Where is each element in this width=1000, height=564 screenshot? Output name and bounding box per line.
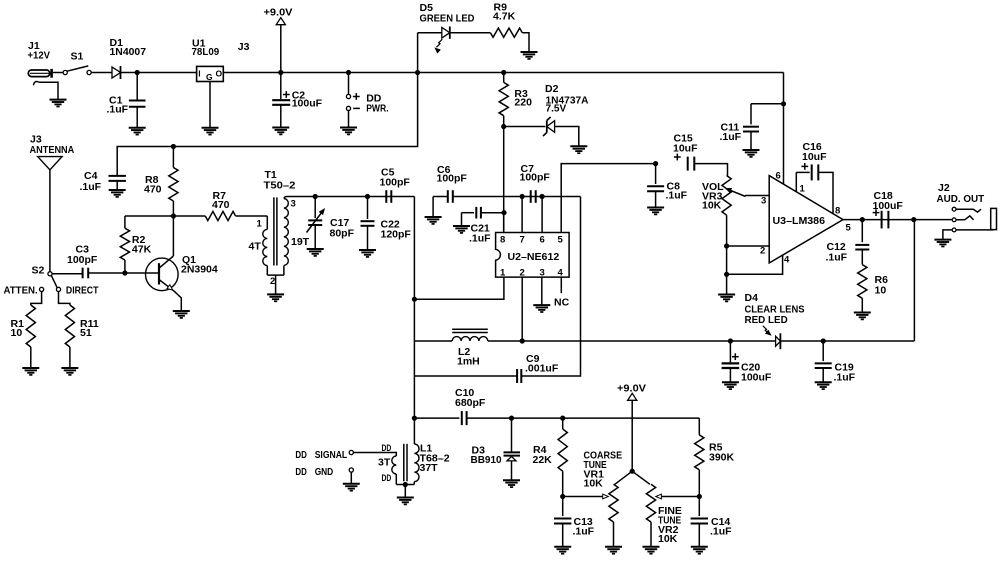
svg-text:D2: D2 <box>545 83 559 95</box>
svg-text:6: 6 <box>540 235 545 246</box>
svg-text:4T: 4T <box>249 241 262 253</box>
svg-text:80pF: 80pF <box>330 228 355 240</box>
svg-text:100pF: 100pF <box>437 173 468 185</box>
svg-text:100uF: 100uF <box>292 97 323 109</box>
svg-text:.1uF: .1uF <box>80 181 102 193</box>
svg-text:AUD. OUT: AUD. OUT <box>937 193 985 205</box>
svg-text:+9.0V: +9.0V <box>264 7 293 19</box>
svg-text:7: 7 <box>520 235 525 246</box>
svg-text:SIGNAL: SIGNAL <box>315 449 348 461</box>
svg-text:S2: S2 <box>32 265 45 277</box>
svg-text:7.5V: 7.5V <box>546 103 567 115</box>
svg-text:1: 1 <box>800 184 806 195</box>
svg-text:4.7K: 4.7K <box>493 10 516 22</box>
svg-text:3: 3 <box>540 268 545 279</box>
svg-text:78L09: 78L09 <box>192 46 220 58</box>
svg-text:19T: 19T <box>291 236 310 248</box>
svg-text:10uF: 10uF <box>802 151 827 163</box>
svg-text:+9.0V: +9.0V <box>617 383 646 395</box>
svg-text:J3: J3 <box>238 41 250 53</box>
svg-text:2N3904: 2N3904 <box>181 264 218 276</box>
svg-text:G: G <box>206 72 213 82</box>
svg-text:100pF: 100pF <box>380 177 411 189</box>
svg-text:390K: 390K <box>709 451 735 463</box>
svg-text:10uF: 10uF <box>673 143 698 155</box>
svg-text:BB910: BB910 <box>471 454 502 466</box>
svg-text:8: 8 <box>835 206 840 217</box>
svg-text:2: 2 <box>270 276 275 287</box>
svg-text:4: 4 <box>558 268 564 279</box>
svg-text:5: 5 <box>846 223 852 234</box>
svg-text:10K: 10K <box>658 533 678 545</box>
svg-text:3T: 3T <box>378 456 391 468</box>
svg-text:2: 2 <box>760 246 765 257</box>
svg-text:DD: DD <box>295 466 307 478</box>
svg-text:220: 220 <box>514 97 532 109</box>
svg-text:DIRECT: DIRECT <box>66 285 99 297</box>
svg-text:5: 5 <box>558 235 564 246</box>
svg-text:O: O <box>216 69 223 79</box>
svg-text:100uF: 100uF <box>741 371 772 383</box>
svg-text:10: 10 <box>11 327 23 339</box>
svg-text:U2–NE612: U2–NE612 <box>508 251 560 263</box>
svg-text:10: 10 <box>875 284 887 296</box>
svg-text:U3–LM386: U3–LM386 <box>773 215 826 227</box>
svg-text:6: 6 <box>776 171 781 182</box>
svg-text:.1uF: .1uF <box>720 131 742 143</box>
svg-text:47K: 47K <box>132 244 152 256</box>
svg-text:GREEN LED: GREEN LED <box>420 12 475 24</box>
svg-text:100pF: 100pF <box>67 254 98 266</box>
svg-text:.1uF: .1uF <box>107 103 129 115</box>
svg-text:RED LED: RED LED <box>745 314 789 326</box>
svg-text:120pF: 120pF <box>381 229 412 241</box>
svg-text:.1uF: .1uF <box>469 233 491 245</box>
svg-text:100pF: 100pF <box>520 172 551 184</box>
svg-text:.1uF: .1uF <box>826 251 848 263</box>
svg-text:.1uF: .1uF <box>710 525 732 537</box>
svg-text:470: 470 <box>144 184 162 196</box>
svg-text:.1uF: .1uF <box>834 371 856 383</box>
svg-text:ATTEN.: ATTEN. <box>4 285 38 297</box>
svg-text:S1: S1 <box>71 51 84 63</box>
svg-text:1: 1 <box>257 219 263 230</box>
svg-text:680pF: 680pF <box>455 397 486 409</box>
svg-text:NC: NC <box>554 297 570 309</box>
svg-text:.1uF: .1uF <box>573 525 595 537</box>
svg-text:PWR.: PWR. <box>366 103 388 115</box>
svg-text:100uF: 100uF <box>873 200 904 212</box>
svg-text:10K: 10K <box>702 200 722 212</box>
svg-text:37T: 37T <box>420 462 439 474</box>
svg-text:2: 2 <box>520 268 525 279</box>
svg-text:51: 51 <box>80 327 92 339</box>
svg-text:3: 3 <box>291 199 296 210</box>
svg-text:22K: 22K <box>533 454 553 466</box>
svg-text:I: I <box>198 68 200 78</box>
svg-text:470: 470 <box>212 199 230 211</box>
svg-text:T50–2: T50–2 <box>264 179 296 191</box>
svg-text:1: 1 <box>500 268 506 279</box>
svg-text:DD: DD <box>295 449 307 461</box>
svg-text:ANTENNA: ANTENNA <box>30 144 75 156</box>
svg-text:.1uF: .1uF <box>666 190 688 202</box>
svg-text:.001uF: .001uF <box>525 363 559 375</box>
svg-text:4: 4 <box>784 255 790 266</box>
svg-text:D4: D4 <box>745 292 759 304</box>
svg-text:1N4007: 1N4007 <box>110 46 147 58</box>
svg-text:GND: GND <box>315 466 334 478</box>
svg-text:1mH: 1mH <box>457 356 480 368</box>
svg-text:+12V: +12V <box>28 50 51 62</box>
svg-text:8: 8 <box>500 235 505 246</box>
svg-text:3: 3 <box>761 196 766 207</box>
svg-text:DD: DD <box>382 473 392 484</box>
svg-text:10K: 10K <box>584 477 604 489</box>
